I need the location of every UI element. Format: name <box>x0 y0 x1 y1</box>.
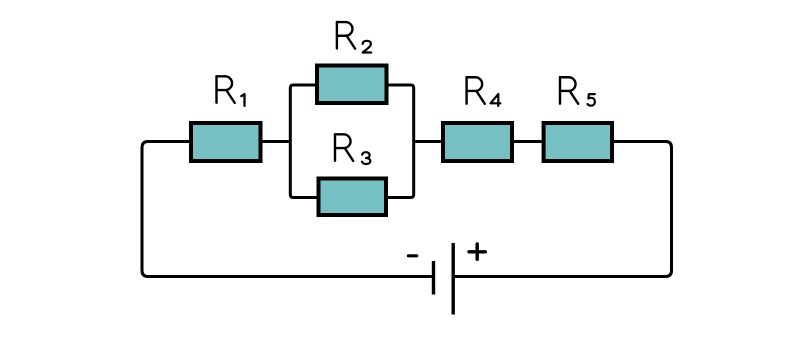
label - (battery negative sign) <box>408 254 416 257</box>
wire: right outer loop from R5 right down and along bottom to battery positive plate <box>455 142 672 277</box>
battery negative plate (short) <box>432 261 435 295</box>
label R3 <box>335 134 370 164</box>
resistor R3 <box>319 179 387 216</box>
wire: parallel junction node to R4 left <box>414 140 441 143</box>
wire: right parallel branch vertical with stubs from R2 and R3 <box>388 85 414 198</box>
label R1 <box>217 76 245 106</box>
label R4 <box>467 77 501 106</box>
battery positive plate (tall) <box>452 243 455 315</box>
label R2 <box>337 22 371 53</box>
resistor R1 <box>191 123 261 161</box>
label + (battery positive sign) <box>469 244 485 259</box>
wire: left parallel branch vertical with stubs to R2 and R3 <box>290 85 316 198</box>
resistor R2 <box>317 66 387 104</box>
wire: R1 right to parallel junction node <box>263 140 291 143</box>
wire: R4 right to R5 left <box>514 140 542 143</box>
resistor R4 <box>443 123 512 161</box>
wire: left outer loop from R1 left down and along bottom to battery negative plate <box>142 142 432 277</box>
label R5 <box>560 77 595 106</box>
resistor R5 <box>544 123 612 161</box>
